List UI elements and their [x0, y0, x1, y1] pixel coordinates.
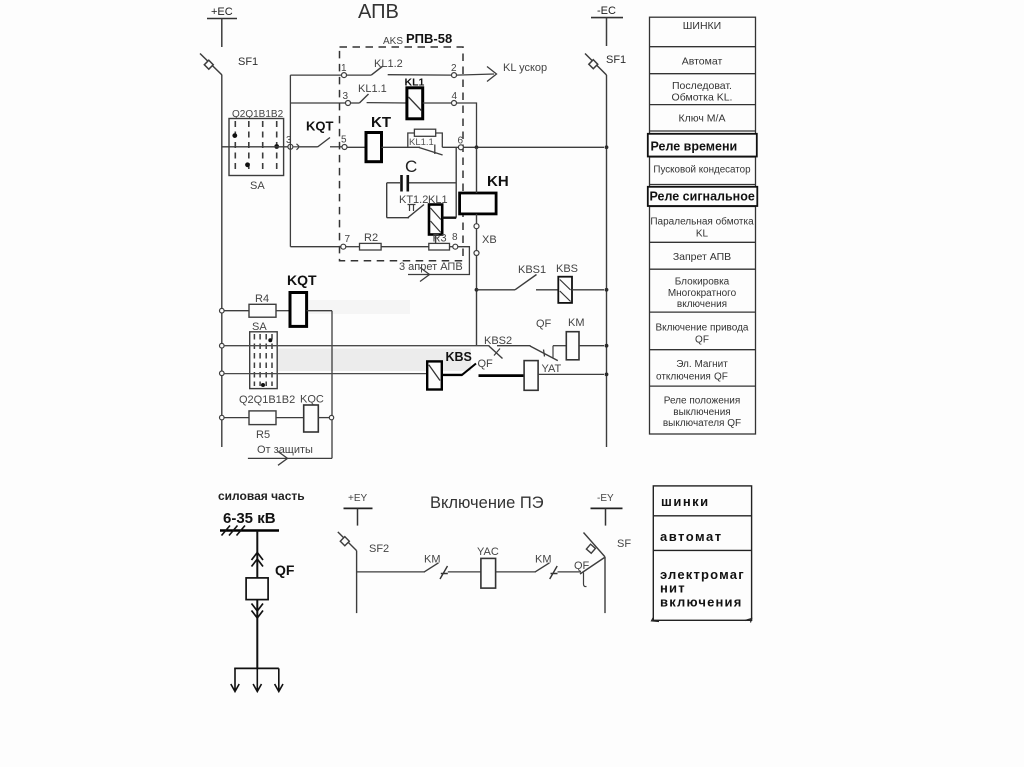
scan artifact band [278, 349, 471, 372]
wire KL1 to terminal 4 [423, 102, 452, 104]
capacitor C [409, 182, 456, 184]
svg-text:KBS: KBS [446, 350, 472, 364]
svg-text:силовая часть: силовая часть [218, 489, 305, 503]
breaker SF [584, 533, 606, 557]
svg-text:Q2Q1B1B2: Q2Q1B1B2 [239, 394, 295, 406]
terminal 7 [341, 244, 346, 249]
svg-text:Запрет АПВ: Запрет АПВ [673, 251, 731, 263]
wire KH bottom to XB [476, 214, 478, 290]
wire +EC stub [221, 19, 223, 48]
wire KQT to right drop [307, 310, 332, 312]
svg-text:R2: R2 [364, 232, 378, 244]
svg-text:QF: QF [478, 358, 494, 370]
relay YAT coil [524, 361, 538, 391]
wire vertical terminals 1-3-7 feeder [289, 75, 291, 247]
svg-text:KBS: KBS [556, 263, 578, 275]
contact KL1.1 [351, 102, 360, 104]
chevrons up [252, 553, 264, 567]
wire R2 to R3 [381, 246, 429, 248]
relay KH coil [460, 193, 497, 214]
breaker SF2 [338, 532, 357, 551]
terminal 1 [342, 73, 347, 78]
svg-text:KBS1: KBS1 [518, 264, 546, 276]
svg-text:KQT: KQT [287, 272, 317, 288]
wire KH top [476, 147, 478, 193]
junction KBS1 row right [605, 288, 609, 292]
wire thick to YAT [479, 374, 525, 377]
svg-text:-EC: -EC [597, 5, 616, 17]
svg-text:Ключ М/А: Ключ М/А [679, 113, 726, 125]
svg-text:AKS: AKS [383, 36, 403, 47]
svg-text:KL1.1: KL1.1 [409, 137, 434, 148]
svg-text:выключателя QF: выключателя QF [663, 418, 741, 429]
wire От защиты arrow [248, 457, 332, 459]
wire KQC to drop [318, 417, 329, 419]
legend table bottom [653, 486, 751, 620]
wire -EY rail [604, 557, 606, 613]
wire YAT to -EC [538, 373, 604, 375]
svg-text:8: 8 [452, 232, 458, 243]
relay KL1 coil [407, 88, 423, 119]
svg-text:R5: R5 [256, 429, 270, 441]
svg-text:YAC: YAC [477, 546, 499, 558]
switch block SA bottom [250, 332, 278, 389]
svg-text:включения: включения [677, 299, 727, 310]
svg-text:Эл. Магнит: Эл. Магнит [676, 359, 728, 370]
svg-text:SF1: SF1 [606, 54, 626, 66]
svg-text:SF1: SF1 [238, 56, 258, 68]
contact KQT [300, 146, 318, 148]
svg-text:От защиты: От защиты [257, 444, 313, 456]
svg-text:KQC: KQC [300, 394, 324, 406]
resistor R5 [224, 417, 249, 419]
node 3 [288, 144, 293, 149]
contact KL1.2 [347, 74, 372, 76]
relay KBS bottom coil [427, 361, 442, 389]
svg-text:6-35 кВ: 6-35 кВ [223, 510, 276, 527]
svg-text:QF: QF [275, 562, 295, 578]
power bus bar [220, 529, 279, 532]
wire capacitor branch vertical right [455, 147, 457, 217]
distribution bar [234, 667, 279, 669]
breaker SF1 right [585, 54, 607, 76]
wire terminal 4 drop [457, 103, 477, 147]
svg-text:C: C [405, 157, 417, 176]
svg-text:QF: QF [574, 560, 590, 572]
svg-text:отключения: отключения [656, 372, 711, 383]
svg-text:KL1: KL1 [405, 77, 425, 89]
svg-text:+EY: +EY [348, 493, 368, 504]
wire YAT row through SA [224, 373, 427, 375]
svg-text:Пусковой кондесатор: Пусковой кондесатор [653, 165, 751, 176]
wire QF down [256, 600, 258, 669]
breaker SF1 left [200, 54, 222, 76]
svg-text:Многократного: Многократного [668, 288, 737, 299]
jumper XB terminals [474, 224, 479, 229]
svg-text:1: 1 [341, 63, 347, 74]
wire to YAC [448, 571, 481, 573]
svg-text:YAT: YAT [542, 363, 562, 375]
wire terminal 5 to KT [347, 146, 366, 148]
relay KQC coil [304, 405, 319, 432]
svg-text:Автомат: Автомат [682, 56, 723, 68]
svg-text:Обмотка KL.: Обмотка KL. [672, 92, 733, 104]
svg-text:Включение привода: Включение привода [656, 323, 749, 334]
svg-text:АПВ: АПВ [358, 1, 399, 23]
terminal 4 [452, 101, 457, 106]
svg-text:Включение ПЭ: Включение ПЭ [430, 494, 544, 512]
wire left rail +EC [221, 75, 223, 447]
wire KL1 second to vertical [442, 216, 456, 218]
relay KL1 second coil [429, 205, 442, 235]
relay KT coil [366, 133, 382, 162]
wire right rail -EC [606, 75, 608, 447]
svg-text:KL ускор: KL ускор [503, 62, 547, 74]
svg-text:2: 2 [451, 63, 457, 74]
wire terminal 7 to feeder [290, 246, 340, 248]
svg-text:включения: включения [660, 595, 743, 610]
dashed box РПВ-58 [340, 47, 464, 261]
node -EC bus bar [591, 17, 623, 19]
svg-text:автомат: автомат [660, 529, 723, 544]
wire -EC stub [606, 18, 608, 46]
svg-text:3: 3 [286, 135, 292, 146]
wire bus to QF [256, 531, 258, 578]
svg-text:R4: R4 [255, 293, 269, 305]
wire KBS2 row [224, 345, 490, 347]
junction main line at -EC [605, 145, 609, 149]
svg-text:KL: KL [696, 229, 709, 240]
contact KL1.1 on line [419, 148, 443, 156]
wire R3 to terminal 8 [450, 246, 453, 248]
svg-text:KH: KH [487, 173, 509, 190]
junction KBS1 row left [475, 288, 479, 292]
wire feeder to terminal 1 [290, 74, 341, 76]
breaker QF power box [246, 578, 268, 600]
legend row Реле времени bold box [648, 134, 757, 157]
legend table top [650, 17, 756, 434]
wire запрет АПВ input [408, 247, 469, 275]
node KBS2 row left [220, 343, 225, 348]
chevrons down [252, 604, 264, 619]
svg-text:SF: SF [617, 538, 631, 550]
svg-text:SF2: SF2 [369, 543, 389, 555]
svg-text:ШИНКИ: ШИНКИ [683, 20, 721, 32]
wire arrow KL ускор [457, 74, 495, 75]
wire to QF contact [558, 571, 582, 573]
relay YAC coil [481, 558, 496, 588]
svg-text:Реле положения: Реле положения [664, 396, 741, 407]
node R5 row [220, 415, 225, 420]
wire R4 to KQT [276, 310, 290, 312]
svg-text:KT1.2: KT1.2 [399, 194, 428, 206]
svg-text:3: 3 [343, 91, 349, 102]
svg-text:РПВ-58: РПВ-58 [406, 31, 452, 46]
wire KM to -EC [579, 345, 604, 347]
svg-text:QF: QF [536, 318, 552, 330]
relay KQT coil [290, 293, 307, 327]
terminal 8 [453, 244, 458, 249]
node YAT row left [220, 371, 225, 376]
svg-text:Последоват.: Последоват. [672, 80, 732, 92]
wire R5 to KQC [276, 417, 304, 419]
svg-text:R3: R3 [433, 233, 447, 245]
svg-text:-EY: -EY [597, 493, 614, 504]
wire to terminal 6 [442, 146, 604, 148]
resistor bypass KL1.1 [408, 133, 443, 147]
wire +EY rail [356, 551, 358, 614]
wire KL1 second bottom stub [435, 235, 437, 244]
svg-text:шинки: шинки [661, 494, 710, 509]
relay KBS right coil [558, 277, 572, 303]
svg-text:KL1.2: KL1.2 [374, 58, 403, 70]
svg-text:QF: QF [714, 372, 728, 383]
contact QF bottom row [442, 374, 462, 376]
resistor R2 [346, 246, 360, 248]
feeder arrows [231, 668, 283, 691]
svg-text:+EC: +EC [211, 6, 233, 18]
wire YAC to KM right [496, 571, 536, 573]
wire row to KM contact [357, 571, 425, 573]
svg-text:XB: XB [482, 234, 497, 246]
node R4 row [220, 308, 225, 313]
terminal 5 [342, 145, 347, 150]
wire drop x332 [331, 311, 333, 459]
legend2 corner ticks [652, 618, 752, 623]
svg-text:KM: KM [568, 317, 585, 329]
svg-text:KQT: KQT [306, 119, 334, 134]
svg-text:3 апрет АПВ: 3 апрет АПВ [399, 261, 463, 273]
svg-text:Паралельная обмотка: Паралельная обмотка [650, 216, 754, 228]
terminal 3 [346, 101, 351, 106]
svg-text:KT: KT [371, 114, 391, 131]
svg-text:Реле сигнальное: Реле сигнальное [650, 190, 755, 204]
svg-text:KL1.1: KL1.1 [358, 83, 387, 95]
resistor R4 [224, 310, 249, 312]
svg-text:QF: QF [695, 335, 709, 346]
svg-text:Блокировка: Блокировка [675, 277, 730, 288]
wire KBS to -EC rail [572, 289, 604, 291]
terminal 6 [458, 145, 463, 150]
wire feeder to terminal 3 [290, 102, 345, 104]
svg-text:6: 6 [458, 136, 464, 147]
svg-text:4: 4 [452, 91, 458, 102]
junction main line / KH drop [475, 145, 479, 149]
svg-text:5: 5 [341, 135, 347, 146]
node +EC bus bar [207, 18, 237, 20]
wire KT to contact [382, 146, 421, 148]
legend row Реле сигнальное bold box [648, 187, 758, 206]
relay KM coil [566, 332, 579, 360]
wire XB to KBS2 row [476, 290, 478, 346]
svg-text:7: 7 [345, 234, 351, 245]
contact KBS1 [477, 289, 516, 291]
svg-text:нит: нит [660, 581, 686, 596]
wire capacitor branch vertical left [386, 183, 388, 218]
contact KT1.2 [387, 217, 409, 219]
svg-text:Реле времени: Реле времени [651, 140, 738, 154]
svg-text:выключения: выключения [673, 407, 730, 418]
svg-text:SA: SA [250, 180, 265, 192]
wire rail through SA block to node 3 [222, 146, 288, 148]
resistor R3 [429, 243, 450, 250]
terminal 2 [452, 73, 457, 78]
